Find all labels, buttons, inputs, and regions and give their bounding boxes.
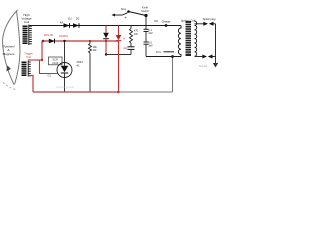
capacitor C2 xyxy=(144,26,149,42)
HV coil winding L1 xyxy=(23,26,28,45)
label Flywheel & Magnets xyxy=(2,45,15,56)
top wire xyxy=(29,25,181,27)
flywheel arc xyxy=(3,10,21,85)
svg-text:Trigger: Trigger xyxy=(24,52,33,56)
node R1 top xyxy=(89,40,91,42)
flywheel dashed rim xyxy=(3,83,16,90)
switch post wire xyxy=(145,16,147,26)
switch S1 pivot xyxy=(144,14,147,17)
diode D5 on red wire xyxy=(49,39,55,44)
ignition coil secondary xyxy=(195,21,197,56)
label 470 2W xyxy=(134,29,139,36)
label C2 xyxy=(148,29,153,35)
label box SCR xyxy=(49,57,63,65)
svg-text:1W: 1W xyxy=(93,48,97,52)
svg-text:C106: C106 xyxy=(52,62,59,65)
label Knife Switch xyxy=(141,6,149,13)
ground rail gray xyxy=(119,91,173,93)
trigger coil core xyxy=(28,61,31,77)
svg-text:Ground: Ground xyxy=(199,65,208,68)
spark gap top xyxy=(203,22,213,26)
diode D2 xyxy=(73,23,79,28)
svg-text:Magnets: Magnets xyxy=(3,52,15,56)
secondary bottom lead xyxy=(195,56,203,58)
svg-text:Prim: Prim xyxy=(156,51,161,54)
red drop continue xyxy=(105,39,107,55)
right vertical wire xyxy=(215,24,217,63)
SCR anode wire xyxy=(64,41,66,66)
trigger coil winding L2 xyxy=(22,62,27,77)
ground arrow xyxy=(213,63,218,68)
node red crossing xyxy=(105,40,107,42)
flywheel rotation arrow xyxy=(6,65,11,71)
label High Voltage Coil xyxy=(21,13,32,24)
node rail red xyxy=(117,91,119,93)
red vertical to rail xyxy=(118,41,120,92)
wire mid horizontal xyxy=(106,54,131,56)
svg-text:1kV: 1kV xyxy=(148,45,153,48)
svg-text:common ground: common ground xyxy=(56,86,75,89)
SCR Q1 xyxy=(57,63,72,78)
svg-text:2kV: 2kV xyxy=(148,32,153,35)
ground rail red xyxy=(33,91,119,93)
battery lead arrow xyxy=(112,13,128,17)
label Trigger Coil (red) xyxy=(24,52,33,60)
red trigger top lead xyxy=(28,59,42,61)
node anode xyxy=(63,40,65,42)
ignition coil primary T1 xyxy=(178,26,181,57)
svg-text:Stop: Stop xyxy=(121,7,127,11)
svg-text:Coil: Coil xyxy=(26,55,31,59)
gap top wire xyxy=(214,23,216,25)
resistor R1 10k xyxy=(89,41,92,92)
secondary top lead xyxy=(195,23,204,25)
svg-text:Spark plug: Spark plug xyxy=(203,17,216,21)
red gate path xyxy=(40,60,58,74)
diode D1 xyxy=(64,23,70,28)
red trigger bottom lead xyxy=(28,76,33,93)
red wire horizontal xyxy=(42,40,119,42)
red gate feed vertical xyxy=(41,41,43,60)
SCR cathode wire xyxy=(64,73,66,92)
svg-text:D2: D2 xyxy=(76,17,80,21)
gap bottom wire xyxy=(213,56,216,58)
node charge junction xyxy=(165,24,168,27)
svg-text:Knife: Knife xyxy=(142,6,148,10)
svg-text:470: 470 xyxy=(134,29,139,33)
branch x106 red drop xyxy=(105,26,107,33)
label 10k 1W xyxy=(93,45,98,52)
rail riser xyxy=(172,57,174,93)
resistor R2 470 xyxy=(130,26,133,47)
capacitor C1 xyxy=(128,47,135,50)
diode D4 red down xyxy=(116,35,122,41)
node gate junction xyxy=(41,59,43,61)
svg-text:4A: 4A xyxy=(60,21,63,25)
label 2N4441 xyxy=(77,60,84,67)
label C3 xyxy=(148,42,153,48)
ignition coil core xyxy=(186,21,192,56)
diode D3 down xyxy=(103,33,109,39)
red wire node A xyxy=(42,40,45,43)
node B xyxy=(105,53,107,55)
svg-text:Coil: Coil xyxy=(24,20,30,24)
branch x118 red drop xyxy=(118,26,120,36)
switch S1 blade xyxy=(129,12,147,16)
svg-text:Charge: Charge xyxy=(162,20,171,24)
HV coil core xyxy=(29,25,32,46)
switch S1 contact xyxy=(127,10,130,13)
svg-text:10k: 10k xyxy=(93,45,98,49)
svg-text:D1: D1 xyxy=(68,17,72,21)
bottom wire to coil xyxy=(146,56,181,58)
svg-text:2N44: 2N44 xyxy=(77,60,84,64)
svg-text:2W: 2W xyxy=(134,32,138,36)
svg-text:Switch: Switch xyxy=(141,9,149,13)
spark gap bottom xyxy=(202,55,212,59)
svg-text:1N4001: 1N4001 xyxy=(59,35,68,38)
svg-text:Wire 30: Wire 30 xyxy=(44,33,53,37)
svg-text:H: H xyxy=(123,36,125,40)
svg-text:2uF: 2uF xyxy=(123,47,128,50)
capacitor C3 xyxy=(144,42,149,57)
node primary return xyxy=(171,55,174,58)
